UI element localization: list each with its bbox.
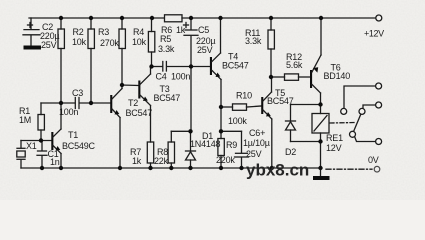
svg-text:C4: C4 xyxy=(156,72,167,82)
svg-text:T1: T1 xyxy=(68,130,78,140)
transistor T1 xyxy=(51,103,95,168)
svg-text:3.3k: 3.3k xyxy=(245,36,262,46)
svg-text:1n: 1n xyxy=(50,157,60,167)
wire relay bottom node xyxy=(291,141,321,143)
mechanical link dash relay to contacts xyxy=(330,122,356,125)
resistor R1 xyxy=(19,103,44,141)
svg-text:12V: 12V xyxy=(326,143,342,153)
transistor T5 xyxy=(261,77,294,168)
wire T6 emitter to rail xyxy=(320,18,322,55)
wire top supply rail right section xyxy=(182,17,376,19)
svg-text:D2: D2 xyxy=(285,147,296,157)
svg-text:100k: 100k xyxy=(228,116,247,126)
svg-text:R9: R9 xyxy=(226,140,237,150)
svg-text:1k: 1k xyxy=(132,156,142,166)
svg-text:3.3k: 3.3k xyxy=(158,44,175,54)
svg-text:+12V: +12V xyxy=(364,29,384,39)
svg-text:25V: 25V xyxy=(197,45,213,55)
svg-text:BD140: BD140 xyxy=(324,71,351,81)
capacitor C6 xyxy=(221,128,270,168)
svg-text:X1: X1 xyxy=(26,141,37,151)
relay contact throw C with terminal xyxy=(359,102,382,114)
svg-text:22k: 22k xyxy=(154,156,169,166)
capacitor C2 xyxy=(23,18,59,50)
resistor R5 xyxy=(148,18,175,67)
resistor R10 xyxy=(221,91,261,127)
svg-text:R10: R10 xyxy=(236,91,252,101)
svg-text:RE1: RE1 xyxy=(326,133,343,143)
transistor T6 xyxy=(310,55,350,105)
wire node x=191 vertical xyxy=(190,67,192,132)
svg-text:0V: 0V xyxy=(368,155,379,165)
resistor R7 xyxy=(130,142,154,168)
relay contact common with terminal xyxy=(350,131,382,144)
crystal X1 xyxy=(17,141,37,169)
wire T1 base line (y=140.5) xyxy=(21,140,52,142)
svg-text:1k: 1k xyxy=(176,25,186,35)
capacitor C1 xyxy=(37,141,60,169)
diode D1 xyxy=(186,131,221,168)
watermark ybx8.cn xyxy=(246,161,309,180)
svg-text:25V: 25V xyxy=(41,40,57,50)
svg-text:BC547: BC547 xyxy=(267,96,294,106)
0V dash-dot line and terminal xyxy=(326,155,380,172)
svg-text:BC549C: BC549C xyxy=(62,141,96,151)
diode D2 xyxy=(285,105,296,158)
wire relay top node xyxy=(291,104,321,106)
svg-text:C6+: C6+ xyxy=(249,128,265,138)
terminal +12V xyxy=(364,15,384,39)
ground rail bottom xyxy=(21,167,321,169)
svg-text:C5: C5 xyxy=(198,25,209,35)
svg-text:100n: 100n xyxy=(171,72,190,82)
resistor R12 xyxy=(271,52,310,80)
resistor R3 xyxy=(88,18,119,103)
resistor R8 xyxy=(154,131,191,168)
wire T3 base xyxy=(122,84,138,87)
wire top supply rail left section xyxy=(29,17,164,19)
svg-text:T2: T2 xyxy=(128,98,138,108)
node line base of T2 (y=103) xyxy=(41,102,111,104)
svg-text:R5: R5 xyxy=(160,34,171,44)
resistor R9 xyxy=(216,131,237,168)
resistor R4 xyxy=(119,18,147,85)
transistor T3 xyxy=(138,67,180,143)
svg-text:1µ/10µ: 1µ/10µ xyxy=(243,138,270,148)
resistor R11 xyxy=(245,18,274,77)
svg-text:C3: C3 xyxy=(72,88,83,98)
capacitor C3 xyxy=(59,88,83,117)
relay coil RE1 xyxy=(312,105,343,154)
resistor R6 xyxy=(161,15,186,35)
capacitor C5 xyxy=(184,18,216,67)
svg-text:BC547: BC547 xyxy=(154,93,181,103)
transistor T2 xyxy=(110,85,152,168)
svg-text:220k: 220k xyxy=(216,155,235,165)
resistor R2 xyxy=(58,18,87,103)
svg-text:BC547: BC547 xyxy=(222,61,249,71)
svg-text:R2: R2 xyxy=(73,27,84,37)
svg-text:10k: 10k xyxy=(72,37,87,47)
relay contact arm xyxy=(354,114,361,131)
svg-text:270k: 270k xyxy=(100,38,119,48)
svg-text:ybx8.cn: ybx8.cn xyxy=(246,161,309,180)
relay contact pole B with terminal xyxy=(341,83,382,114)
ground bar relay xyxy=(313,176,330,180)
wire relay to ground xyxy=(320,142,322,177)
svg-text:BC547: BC547 xyxy=(126,108,153,118)
transistor T4 xyxy=(191,18,249,131)
svg-text:25V: 25V xyxy=(246,149,262,159)
svg-text:5.6k: 5.6k xyxy=(286,60,303,70)
svg-text:R3: R3 xyxy=(98,27,109,37)
ground bar under C2 xyxy=(24,46,42,50)
capacitor C4 xyxy=(152,62,192,82)
svg-text:100n: 100n xyxy=(59,107,78,117)
svg-text:R4: R4 xyxy=(133,27,144,37)
svg-text:1N4148: 1N4148 xyxy=(190,139,221,149)
svg-text:10k: 10k xyxy=(132,37,147,47)
svg-text:1M: 1M xyxy=(19,115,31,125)
